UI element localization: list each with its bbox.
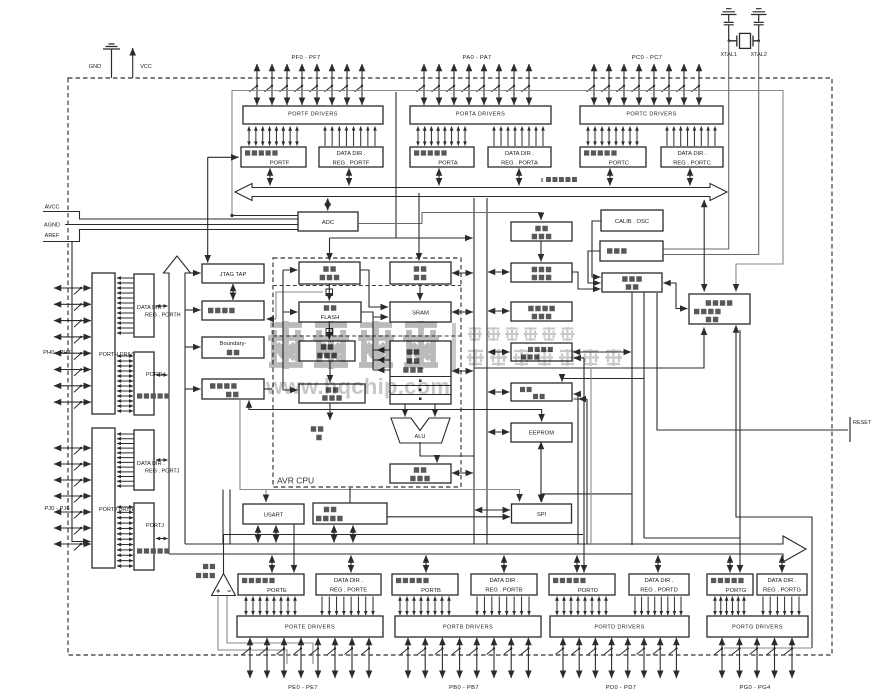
block on-chip debug <box>202 301 264 320</box>
block stack pointer <box>390 262 451 284</box>
block MCU control register <box>511 302 572 321</box>
label analog comparator <box>196 567 215 576</box>
block data register PORTB <box>392 574 458 595</box>
wire long control (bus top) <box>223 534 583 536</box>
wire bus to data register PORTG <box>729 556 731 573</box>
svg-text:REG . PORTF: REG . PORTF <box>333 161 370 167</box>
pin arrows PD0 - PD7 <box>556 638 678 678</box>
wire JTAG TAP to on-chip debug <box>232 284 234 300</box>
wire oscillator to timing <box>588 251 601 283</box>
block data register PORTH <box>134 352 170 415</box>
wire bus to ADC <box>327 199 329 211</box>
svg-text:PORTG: PORTG <box>726 588 747 594</box>
block USART <box>243 504 304 524</box>
svg-text:DATA DIR .: DATA DIR . <box>334 578 363 584</box>
svg-text:PORTB DRIVERS: PORTB DRIVERS <box>443 625 493 631</box>
block PORTJ DRIVERS (vertical) <box>92 428 143 568</box>
block JTAG TAP <box>202 264 264 283</box>
block boundary-scan <box>202 337 264 358</box>
fan arrows register PORTD <box>557 597 606 616</box>
watermark right slogan line 2 <box>467 349 622 366</box>
wire flash direct addressing <box>361 312 390 370</box>
pin arrows PF0 - PF7 <box>250 64 364 105</box>
block EEPROM <box>511 423 572 442</box>
wire data direction register PORTF to bus <box>348 169 350 186</box>
wire bus arrow to JTAG blocks <box>185 273 201 389</box>
ground symbol <box>103 44 120 78</box>
wire programming logic gray routing to USART and SPI <box>240 399 520 502</box>
svg-text:VCC: VCC <box>140 64 152 70</box>
block data direction register PORTG <box>757 574 807 595</box>
svg-text:PA0 - PA7: PA0 - PA7 <box>463 55 492 61</box>
block data direction register PORTJ <box>134 430 180 490</box>
svg-text:USART: USART <box>264 513 284 519</box>
svg-text:GND: GND <box>89 64 101 70</box>
block data register PORTA <box>410 147 474 167</box>
wire AREF to ADC <box>43 230 298 242</box>
block PORTE DRIVERS <box>237 616 383 637</box>
pin arrows PJ0 - PJ6 <box>54 447 91 551</box>
wire timer/counter to control vertical <box>573 351 631 353</box>
block PORTF DRIVERS <box>243 106 383 124</box>
svg-text:AGND: AGND <box>44 223 60 229</box>
wire data dir PORTH to bus arrow <box>156 305 168 307</box>
wire decoder to control lines <box>329 403 331 420</box>
block program counter <box>299 262 360 284</box>
fan arrows drivers to data register PORTF <box>249 127 297 146</box>
bus link left vertical pair <box>223 490 230 545</box>
svg-text:AVCC: AVCC <box>45 205 60 211</box>
svg-text:ALU: ALU <box>415 434 426 440</box>
svg-text:SPI: SPI <box>537 512 547 518</box>
wire bus to data register PORTB <box>425 556 427 573</box>
block general purpose registers <box>390 341 451 404</box>
wire program counter to flash via node <box>328 284 330 301</box>
bus 8-bit data bus (bottom) <box>169 536 806 562</box>
block universal serial interface <box>313 503 387 524</box>
fan arrows PORTH upper <box>117 278 134 333</box>
block programming logic <box>202 379 264 399</box>
wire timing control verticals <box>632 292 644 545</box>
wire clock distribution (gray, top) <box>232 91 783 292</box>
svg-text:PJ0 - PJ6: PJ0 - PJ6 <box>44 506 69 512</box>
svg-text:PB0 - PB7: PB0 - PB7 <box>449 685 479 691</box>
watermark divider bar <box>452 323 456 370</box>
svg-text:REG . PORTA: REG . PORTA <box>501 161 538 167</box>
svg-text:PORTC DRIVERS: PORTC DRIVERS <box>626 112 676 118</box>
wire data register PORTA to bus <box>438 169 440 186</box>
block data direction register PORTC <box>661 147 723 167</box>
fan arrows register PORTE <box>246 597 295 616</box>
fan arrows PORTH lower <box>117 356 133 411</box>
wire bus to data dir PORTE <box>350 556 352 573</box>
svg-text:PORTB: PORTB <box>421 588 441 594</box>
svg-text:PORTA DRIVERS: PORTA DRIVERS <box>456 112 505 118</box>
RESET pin <box>849 417 851 442</box>
block PORTD DRIVERS <box>550 616 689 637</box>
block PORTC DRIVERS <box>580 106 723 124</box>
wire stack pointer to SRAM <box>419 284 421 301</box>
wire data register PORTJ to bus arrow <box>156 538 168 540</box>
block interrupt unit <box>511 383 572 401</box>
wire XTAL2 to power supervision <box>664 41 759 255</box>
wire timing to SPI <box>542 494 632 502</box>
ALU block <box>391 418 450 443</box>
svg-text:PORTF: PORTF <box>270 161 290 167</box>
AVR CPU dashed boundary <box>273 258 461 487</box>
mux node 2 <box>326 329 333 336</box>
capacitor to ground XTAL2 <box>751 9 767 41</box>
svg-text:DATA DIR .: DATA DIR . <box>137 461 165 467</box>
wire timing to power supervision <box>664 283 688 309</box>
wire internal osc to watchdog <box>540 241 542 262</box>
block data register PORTE <box>238 574 304 595</box>
svg-text:PORTE: PORTE <box>267 588 287 594</box>
wire gray vertical right of interrupt <box>590 368 592 544</box>
block PORTH DRIVERS (vertical) <box>92 273 144 414</box>
analog comparator triangle <box>212 574 236 596</box>
svg-text:PORTE DRIVERS: PORTE DRIVERS <box>285 625 335 631</box>
fan arrows drivers to data register PORTA <box>418 127 465 146</box>
block data direction register PORTF <box>319 147 383 167</box>
fan arrows data dir PORTE <box>322 597 373 616</box>
wire bus to data dir PORTG <box>781 556 783 573</box>
block internal oscillator <box>511 222 572 241</box>
svg-text:ADC: ADC <box>322 220 334 226</box>
wire USI stub up <box>349 488 351 503</box>
svg-text:EEPROM: EEPROM <box>529 431 554 437</box>
wire PC to SRAM <box>360 270 388 307</box>
svg-text:PORTD DRIVERS: PORTD DRIVERS <box>594 625 644 631</box>
bus 8-bit data bus (top) <box>235 184 727 201</box>
svg-text:CALIB . OSC: CALIB . OSC <box>615 219 649 225</box>
wire bus to data register PORTE <box>271 556 273 573</box>
block data direction register PORTE <box>316 574 381 595</box>
block data direction register PORTB <box>471 574 537 595</box>
pin arrows PH0 - PH7 <box>54 287 91 409</box>
block data direction register PORTA <box>488 147 551 167</box>
wire down into PORTG register <box>739 538 741 573</box>
wire SPI to rails <box>475 509 510 511</box>
wire data direction register PORTA to bus <box>518 169 520 186</box>
wire TAP link to PORTF data register <box>208 156 238 158</box>
wire gray along bottom right <box>724 647 812 649</box>
wire RESET to timing <box>657 293 848 430</box>
wire USI to bus <box>333 526 335 543</box>
svg-text:DATA DIR .: DATA DIR . <box>644 578 673 584</box>
capacitor to ground XTAL1 <box>721 9 737 41</box>
wire USART to bus <box>257 526 259 543</box>
watermark right slogan line 1 <box>468 327 575 341</box>
block timing and control <box>602 273 662 292</box>
svg-text:REG . PORTD: REG . PORTD <box>640 588 678 594</box>
svg-text:RESET: RESET <box>853 420 872 426</box>
wire watchdog to timing <box>572 272 601 289</box>
svg-text:SRAM: SRAM <box>412 311 429 317</box>
svg-text:DATA DIR .: DATA DIR . <box>677 151 706 157</box>
svg-text:PF0 - PF7: PF0 - PF7 <box>291 55 320 61</box>
wire bus to power supervision top <box>703 200 705 292</box>
wire bus to data register PORTD <box>576 556 578 573</box>
wire SRAM to rails <box>452 311 473 313</box>
fan arrows register PORTB <box>400 597 449 616</box>
wire registers to ALU <box>404 404 406 417</box>
wire CPU left feedback <box>283 270 298 390</box>
block watchdog timer <box>511 263 572 282</box>
block CALIB. OSC <box>601 210 663 231</box>
block PORTG DRIVERS <box>707 616 808 637</box>
block data register PORTF <box>241 147 306 167</box>
svg-text:PORTC: PORTC <box>609 161 629 167</box>
wires rails to right blocks <box>488 272 510 432</box>
wire timer counter right vertical <box>574 358 585 573</box>
wire XTAL1 to oscillator <box>664 41 729 249</box>
block SPI <box>512 504 572 523</box>
block program flash <box>299 302 361 322</box>
svg-text:PORTJ: PORTJ <box>146 523 164 529</box>
fan arrows PORTJ upper <box>117 434 134 486</box>
wire clock junction to ADC <box>232 215 298 217</box>
wire AVCC to ADC <box>43 212 298 220</box>
wire calib osc to timing <box>592 221 601 277</box>
svg-text:REG . PORTB: REG . PORTB <box>485 588 522 594</box>
wire flash to instruction register via node <box>328 322 330 340</box>
svg-text:PORTG DRIVERS: PORTG DRIVERS <box>732 625 783 631</box>
wire stack pointer to rails <box>452 272 473 274</box>
svg-text:8: 8 <box>541 178 544 184</box>
svg-text:PORTA: PORTA <box>438 161 458 167</box>
wire into SPI left <box>387 516 510 518</box>
svg-text:PH0 - PH7: PH0 - PH7 <box>43 350 71 356</box>
wire status register to rails <box>452 472 473 474</box>
wire data register PORTH to bus arrow <box>156 374 168 376</box>
fan arrows data dir PORTG <box>763 597 799 616</box>
block PORTA DRIVERS <box>410 106 551 124</box>
label control lines <box>311 429 324 438</box>
svg-text:www.hqchip.com: www.hqchip.com <box>265 374 450 399</box>
svg-text:JTAG TAP: JTAG TAP <box>220 272 247 278</box>
svg-text:FLASH: FLASH <box>321 315 340 321</box>
wire bus to stack pointer <box>418 193 420 261</box>
wire ALU to status register and rail <box>420 442 474 456</box>
mux node 1 <box>326 289 333 296</box>
wire programming logic to CPU <box>264 388 272 390</box>
wire interrupt unit right links <box>574 394 579 544</box>
wire comparator output <box>223 535 225 574</box>
svg-text:AVR CPU: AVR CPU <box>277 476 314 486</box>
pin arrows PC0 - PC7 <box>587 64 701 105</box>
svg-text:AREF: AREF <box>45 233 60 239</box>
svg-text:DATA DIR .: DATA DIR . <box>336 151 365 157</box>
block data direction register PORTH <box>134 274 181 337</box>
pin arrows PE0 - PE7 <box>243 638 371 678</box>
svg-text:PD0 - PD7: PD0 - PD7 <box>606 685 636 691</box>
svg-text:REG . PORTE: REG . PORTE <box>330 588 367 594</box>
wire data dir PORTJ to bus arrow <box>156 459 168 461</box>
fan arrows register PORTG <box>715 597 744 616</box>
watermark big brand glyphs <box>268 321 439 369</box>
wire AGND to ADC <box>65 224 298 226</box>
svg-text:PG0 - PG4: PG0 - PG4 <box>739 685 771 691</box>
svg-text:REG . PORTG: REG . PORTG <box>763 588 801 594</box>
bus vertical arrow (left) <box>164 256 191 554</box>
block SRAM <box>390 302 451 322</box>
wire power supervision down right <box>736 326 812 649</box>
wire interrupt unit right second <box>574 399 588 544</box>
svg-text:REG . PORTJ: REG . PORTJ <box>145 469 180 475</box>
wire bus to data dir PORTB <box>503 556 505 573</box>
block ADC <box>298 212 358 231</box>
block status register <box>390 464 451 483</box>
fan arrows data direction to drivers PORTA <box>494 127 543 147</box>
wire on-chip debug to CPU (gray) <box>276 292 323 319</box>
wire ADC right to internal oscillator <box>358 213 541 224</box>
wire clock line to program counter and rail <box>330 92 473 261</box>
block oscillator <box>600 241 663 261</box>
block data register PORTD <box>549 574 615 595</box>
svg-text:PC0 - PC7: PC0 - PC7 <box>632 55 662 61</box>
wire data direction register PORTC to bus <box>689 169 691 186</box>
fan arrows drivers to data register PORTC <box>588 127 637 146</box>
wire data register PORTF to bus <box>269 169 271 186</box>
pin arrows PG0 - PG4 <box>715 638 794 678</box>
svg-text:DATA DIR .: DATA DIR . <box>505 151 534 157</box>
svg-text:Boundary-: Boundary- <box>220 341 247 347</box>
fan arrows data dir PORTB <box>477 597 529 616</box>
chip outline dashed border <box>68 78 832 655</box>
block power supervision POR/BOD reset <box>689 294 750 324</box>
wire control to PORTG register <box>644 537 740 539</box>
wire USART to PORTE register <box>293 524 295 573</box>
wire EEPROM to SPI <box>540 442 542 502</box>
wire to EEPROM top <box>249 401 542 422</box>
wire comparator inputs (gray) <box>218 596 287 665</box>
svg-text:DATA DIR .: DATA DIR . <box>767 578 796 584</box>
svg-text:PE0 - PE7: PE0 - PE7 <box>288 685 318 691</box>
block data register PORTC <box>580 147 646 167</box>
block data direction register PORTD <box>629 574 689 595</box>
pin arrows PA0 - PA7 <box>417 64 531 105</box>
block instruction decoder <box>299 384 365 403</box>
block PORTB DRIVERS <box>395 616 541 637</box>
wire registers to rails <box>452 370 473 372</box>
fan arrows data dir PORTD <box>635 597 681 616</box>
label 8-bit data bus <box>541 178 577 184</box>
wire bus to data dir PORTD <box>657 556 659 573</box>
wire instruction register to decoder <box>329 361 331 383</box>
wire data register PORTC to bus <box>609 169 611 186</box>
block data register PORTG <box>707 574 753 595</box>
wire power supervision down 2 <box>739 330 741 538</box>
svg-text:REG . PORTC: REG . PORTC <box>673 161 711 167</box>
svg-text:REG . PORTH: REG . PORTH <box>145 313 181 319</box>
wire left power rail <box>72 242 91 542</box>
svg-text:DATA DIR .: DATA DIR . <box>489 578 518 584</box>
crystal <box>729 36 759 47</box>
wire into interrupt unit top <box>562 379 644 382</box>
block timer/counters <box>511 343 572 361</box>
pin arrows PB0 - PB7 <box>401 638 530 678</box>
bus rails center vertical pair <box>474 198 487 544</box>
svg-text:PORTD: PORTD <box>578 588 598 594</box>
fan arrows data direction to drivers PORTC <box>667 127 715 147</box>
block instruction register <box>299 341 355 361</box>
block data register PORTJ <box>134 503 170 570</box>
wire rails to power supervision bottom <box>474 328 704 369</box>
VCC pin arrow <box>132 48 134 78</box>
fan arrows PORTJ lower <box>117 507 133 566</box>
fan arrows data direction to drivers PORTF <box>325 127 375 147</box>
svg-text:PORTF DRIVERS: PORTF DRIVERS <box>288 112 338 118</box>
